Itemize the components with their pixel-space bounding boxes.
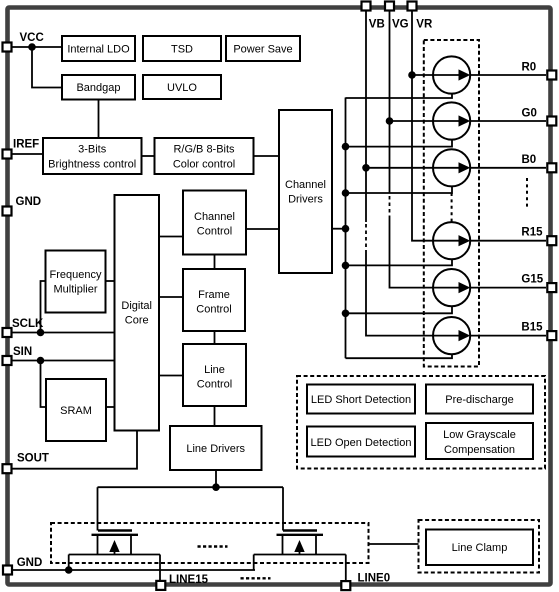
wire Digital Core to Channel Control [159,236,183,238]
pin VG [385,2,394,11]
wire VB tap to B0 [366,167,433,169]
block Line Clamp [426,530,533,566]
wire Channel Drivers to source rail [332,228,346,230]
pin B15 [547,331,556,340]
svg-text:LINE15: LINE15 [169,574,209,586]
block Pre-discharge [426,385,533,414]
dashed group boxes [51,40,545,573]
wire B0 source bottom [346,186,453,193]
arrow B15 [433,330,470,341]
wire VB rail break (dashed) [365,224,367,252]
svg-text:Drivers: Drivers [288,194,323,206]
pin GND bottom-left [3,566,12,575]
wire G0 source bottom [346,139,453,146]
block Line Control [183,344,246,406]
node rail-drivers junction [342,225,350,233]
wire IREF to 3-Bits Brightness control [11,153,43,155]
block R/G/B 8-Bits Color control [155,138,254,174]
horizontal dots between transistors [198,545,228,547]
current source R0 [433,56,470,93]
wire VR tap to R0 [412,74,433,76]
node rail-B0 junction [342,189,350,197]
block TSD [143,36,221,61]
output wires to pins [470,75,546,336]
current source return rail [346,93,453,358]
svg-text:GND: GND [16,196,42,208]
wire VB rail lower to B15 [366,252,433,336]
current source G15 [433,269,470,306]
block Bandgap [62,75,135,100]
svg-text:Low Grayscale: Low Grayscale [443,429,516,441]
block LED Open Detection [307,427,415,457]
pin SCLK [3,328,12,337]
node gate bus junction [212,483,220,491]
svg-text:TSD: TSD [171,44,193,56]
wire Line Control to Line Drivers [214,406,216,426]
node rail-R15 junction [342,262,350,270]
svg-text:VR: VR [416,19,433,31]
line switches dashed box [51,523,369,563]
pin IREF [3,150,12,159]
svg-text:SOUT: SOUT [17,453,49,465]
svg-text:SIN: SIN [13,346,32,358]
svg-text:B15: B15 [521,322,543,334]
svg-text:R15: R15 [521,227,543,239]
wire SIN branch to SRAM [41,361,47,408]
wire VG tap to G0 [390,120,434,122]
arrow R0 [433,69,470,80]
wire gate drop transistor M1 [97,487,99,530]
wire return rail vertical [345,98,347,359]
wire R/G/B color control to Channel Drivers [254,155,280,157]
svg-text:Line Clamp: Line Clamp [452,542,508,554]
vertical dots inside source box [451,193,453,224]
svg-text:SCLK: SCLK [12,318,44,330]
block Power Save [226,36,300,61]
node VR-R0 junction [408,71,416,79]
pin G15 [547,283,556,292]
wire SOUT from Digital Core [11,431,137,469]
block UVLO [143,75,221,99]
wire VB rail upper [365,11,367,222]
wire SCLK branch to Frequency Multiplier [41,281,46,333]
svg-text:VB: VB [369,19,385,31]
svg-text:Internal LDO: Internal LDO [67,44,130,56]
svg-text:Brightness control: Brightness control [48,159,136,171]
block LED Short Detection [307,385,415,414]
wire SCLK to Digital Core [11,332,115,334]
wire VG rail upper [389,11,391,193]
svg-text:IREF: IREF [13,139,39,151]
wire G15 source bottom [346,306,453,313]
svg-text:Pre-discharge: Pre-discharge [445,394,513,406]
wire R0 source bottom [346,93,453,98]
svg-text:Frame: Frame [198,289,230,301]
wire B15 source bottom [346,354,453,358]
wire VG rail lower to G15 [390,219,434,288]
pin GND left [3,207,12,216]
block Line Drivers [170,426,262,470]
svg-text:UVLO: UVLO [167,82,197,94]
svg-text:LED Open Detection: LED Open Detection [311,437,412,449]
svg-text:Color control: Color control [173,159,235,171]
wire Frequency Multiplier to Digital Core [106,280,115,282]
detection functions dashed box [297,376,545,469]
wire R15 output [470,240,546,242]
block Low Grayscale Compensation [426,423,533,459]
pin B0 [547,163,556,172]
node SCLK junction [37,329,45,337]
pin VCC [3,43,12,52]
svg-text:Power Save: Power Save [233,44,292,56]
svg-text:R/G/B 8-Bits: R/G/B 8-Bits [173,144,235,156]
svg-text:Bandgap: Bandgap [76,82,120,94]
wire R15 source bottom [346,259,453,265]
block Frame Control [183,269,245,331]
node VCC junction [28,43,36,51]
svg-text:GND: GND [17,557,43,569]
svg-text:SRAM: SRAM [60,405,92,417]
node SIN junction [37,357,45,365]
wire VCC to Internal LDO [11,46,62,48]
svg-text:Digital: Digital [121,300,152,312]
block Channel Drivers [279,110,332,273]
svg-text:R0: R0 [522,62,537,74]
svg-text:Control: Control [197,226,232,238]
svg-text:Channel: Channel [194,211,235,223]
wire GND bus bottom [11,569,255,571]
pin LINE0 [341,581,350,590]
svg-text:LINE0: LINE0 [358,573,391,585]
node VB-B0 junction [362,164,370,172]
wire B0 output [470,167,546,169]
block Internal LDO [62,36,135,61]
transistor M2 (LINE0 switch) [277,531,324,535]
pin VB [362,2,371,11]
svg-text:Line: Line [204,364,225,376]
wire VR rail to R15 [412,11,433,241]
wire VG rail break (dashed) [389,196,391,219]
block SRAM [46,379,106,441]
svg-text:Frequency: Frequency [50,269,102,281]
ellipsis marks [198,178,528,578]
svg-text:G0: G0 [522,108,537,120]
pin R15 [547,236,556,245]
wire SIN to Digital Core [11,360,115,362]
current source B15 [433,317,470,354]
wire gate drop transistor M2 [282,487,284,530]
block labels [48,44,516,555]
svg-text:Multiplier: Multiplier [53,284,97,296]
svg-text:Control: Control [197,379,232,391]
block Channel Control [183,191,246,255]
wire Digital Core to Line Control [159,375,183,377]
svg-text:Core: Core [125,315,149,327]
wire Digital Core to Frame Control [159,296,183,298]
arrow G15 [433,282,470,293]
svg-text:B0: B0 [522,154,537,166]
wire SRAM to Digital Core [106,406,115,408]
svg-text:VCC: VCC [20,32,44,44]
arrow B0 [433,162,470,173]
wire 3-Bits to R/G/B color control [142,155,155,157]
svg-text:Channel: Channel [285,179,326,191]
wire gate bus horizontal [98,486,284,488]
line clamp dashed box [419,520,540,573]
node rail-G15 junction [342,310,350,318]
arrow R15 [433,235,470,246]
block 3-Bits Brightness control [43,138,142,174]
pin R0 [547,71,556,80]
block Frequency Multiplier [46,251,106,313]
current source R15 [433,222,470,259]
pin SOUT [3,464,12,473]
svg-text:LED Short Detection: LED Short Detection [311,394,411,406]
arrow G0 [433,115,470,126]
function blocks [43,36,533,565]
wire R0 output [470,74,546,76]
current source B0 [433,149,470,186]
node VG-G0 junction [386,117,394,125]
current source circles [433,56,470,354]
wire Channel Control to Channel Drivers [246,228,279,230]
wire Channel Control to Frame Control [214,255,216,270]
svg-text:Control: Control [196,304,231,316]
wire Line Drivers down to gate bus [215,470,217,487]
svg-text:3-Bits: 3-Bits [78,144,107,156]
current source G0 [433,102,470,139]
pin SIN [3,356,12,365]
horizontal dots between LINE labels [241,577,271,579]
node rail-G0 junction [342,143,350,151]
svg-text:Compensation: Compensation [444,444,515,456]
transistor M1 (LINE15 switch) [92,531,139,535]
top supply rails [366,11,433,336]
svg-text:VG: VG [392,19,409,31]
block Digital Core [115,195,160,431]
wire Frame Control to Line Control [214,331,216,344]
pin G0 [547,117,556,126]
wire B15 output [470,335,546,337]
current sources dashed box [424,40,479,367]
wire Bandgap to 3-Bits Brightness control [98,100,100,139]
node GND junction [65,566,73,574]
wire G15 output [470,287,546,289]
wire G0 output [470,120,546,122]
svg-text:Line Drivers: Line Drivers [186,443,245,455]
svg-text:G15: G15 [521,274,543,286]
vertical dots right side [526,178,528,208]
pin LINE15 [156,581,165,590]
pin VR [408,2,417,11]
wire dashed box to Line Clamp [369,543,419,545]
wire VCC branch to Bandgap [32,47,62,88]
